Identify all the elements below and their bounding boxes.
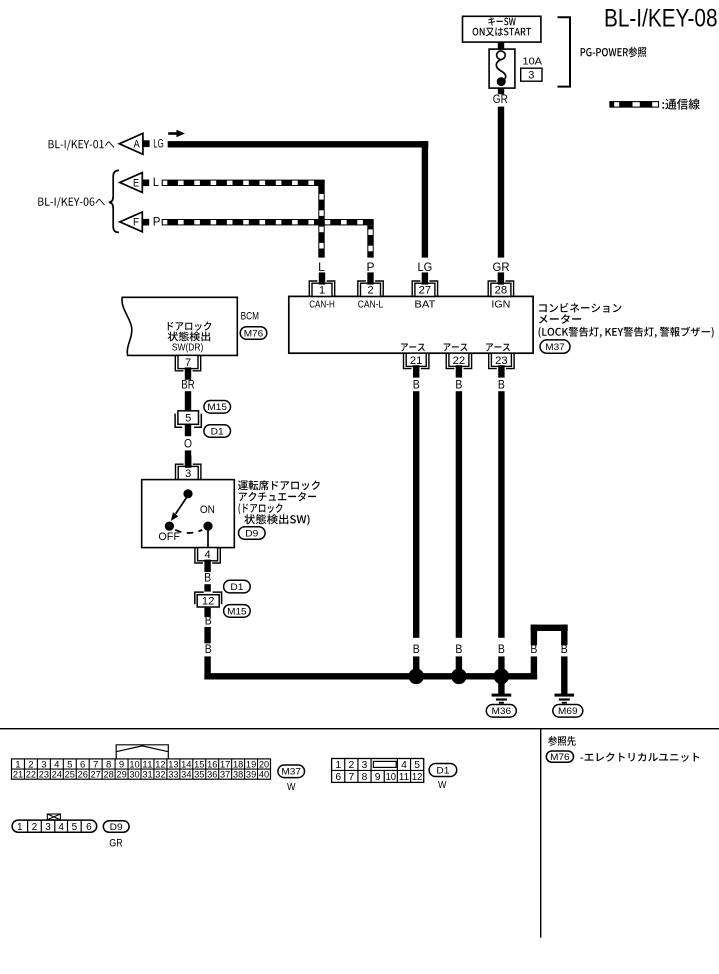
connector oval M69 xyxy=(553,705,583,718)
svg-text:22: 22 xyxy=(26,770,36,781)
BCM box (ドアロック状態検出SW) xyxy=(122,297,237,355)
PG-POWER reference bracket xyxy=(558,17,571,86)
svg-text:W: W xyxy=(287,782,296,793)
switch OFF contact xyxy=(165,522,174,531)
svg-text:L: L xyxy=(153,177,160,189)
svg-text:10A: 10A xyxy=(523,55,543,67)
connector oval M15 (conn 5) xyxy=(204,401,231,414)
svg-text:B: B xyxy=(204,571,211,585)
label (LOCK警告灯, KEY警告灯, 警報ブザー) xyxy=(539,327,714,338)
svg-text:21: 21 xyxy=(13,770,23,781)
svg-text:GR: GR xyxy=(493,260,510,274)
svg-text:25: 25 xyxy=(65,770,75,781)
svg-text:12: 12 xyxy=(202,596,215,608)
legend communication-line sample xyxy=(610,101,659,107)
footer divider vertical xyxy=(540,728,541,938)
svg-text:BR: BR xyxy=(181,378,195,392)
legend label :通信線 xyxy=(662,98,700,109)
ground bus wire xyxy=(204,673,537,679)
wire pin4 to conn12 xyxy=(204,584,210,591)
svg-text:11: 11 xyxy=(399,772,410,783)
svg-text:IGN: IGN xyxy=(491,299,510,310)
wire LG vertical xyxy=(422,141,428,258)
svg-text:1: 1 xyxy=(335,760,341,771)
svg-text:CAN-L: CAN-L xyxy=(358,299,384,310)
wire pin23 to bus xyxy=(498,391,504,638)
svg-text:GR: GR xyxy=(109,838,123,850)
svg-text:GR: GR xyxy=(493,92,508,106)
svg-text:ON: ON xyxy=(200,504,215,516)
svg-text:B: B xyxy=(455,378,462,392)
label 状態検出SW) xyxy=(244,514,309,525)
combination meter box xyxy=(289,296,533,353)
key switch box (キーSW ON又はSTART) xyxy=(463,16,541,42)
svg-text:OFF: OFF xyxy=(158,531,180,543)
svg-text:2: 2 xyxy=(367,285,373,297)
svg-text:B: B xyxy=(530,642,537,656)
svg-text:5: 5 xyxy=(185,413,191,425)
svg-text:3: 3 xyxy=(185,468,191,480)
svg-text:B: B xyxy=(498,378,505,392)
wire B segment xyxy=(204,627,210,644)
svg-text:D1: D1 xyxy=(211,426,224,437)
svg-text:D9: D9 xyxy=(245,528,258,539)
svg-text:40: 40 xyxy=(259,770,269,781)
svg-text:E: E xyxy=(133,177,139,189)
ground symbol M36 xyxy=(492,694,512,697)
node square A xyxy=(143,140,150,147)
connector oval M76 (BCM) xyxy=(240,327,267,340)
svg-text:34: 34 xyxy=(181,770,192,781)
pin 3 xyxy=(176,464,201,479)
pin 4 xyxy=(195,548,220,563)
door lock actuator box xyxy=(142,480,235,548)
wire top link xyxy=(531,625,568,631)
label アクチュエーター xyxy=(239,492,316,502)
svg-text:1: 1 xyxy=(319,285,325,297)
wire pin21 to bus xyxy=(413,391,419,638)
svg-text:LG: LG xyxy=(153,139,164,151)
wire 21 into bus xyxy=(413,656,419,679)
switch common contact xyxy=(183,489,192,498)
label 運転席ドアロック xyxy=(238,480,320,490)
triangle E xyxy=(120,173,143,193)
svg-text:M76: M76 xyxy=(550,752,570,763)
inline connector 12 xyxy=(195,592,222,604)
connector oval D1 (conn 12) xyxy=(224,580,251,593)
svg-text:B: B xyxy=(498,642,505,656)
svg-text:38: 38 xyxy=(233,770,243,781)
connector oval M36 xyxy=(486,705,516,718)
connector oval D1 (conn 5) xyxy=(204,425,231,438)
svg-text:D1: D1 xyxy=(230,582,243,593)
fuse 10A [3] xyxy=(489,49,515,88)
svg-text:21: 21 xyxy=(410,355,423,367)
wire M36 drop xyxy=(498,680,504,695)
inline connector 5 xyxy=(178,411,199,425)
svg-text:27: 27 xyxy=(91,770,101,781)
label BL-I/KEY-06へ xyxy=(38,197,105,208)
footer divider horizontal xyxy=(0,728,719,729)
connector oval M15 (conn 12) xyxy=(224,605,251,618)
junction dot 21 xyxy=(408,669,424,685)
svg-text:22: 22 xyxy=(453,355,466,367)
svg-text:B: B xyxy=(413,642,420,656)
svg-text:6: 6 xyxy=(86,822,92,833)
svg-text:M36: M36 xyxy=(492,706,512,717)
svg-text:M76: M76 xyxy=(244,328,264,339)
svg-text:35: 35 xyxy=(194,770,204,781)
svg-text:2: 2 xyxy=(348,760,354,771)
wire riser lower xyxy=(531,656,537,673)
label 状態検出 (BCM) xyxy=(168,332,211,342)
svg-text:B: B xyxy=(205,642,212,656)
svg-text:M37: M37 xyxy=(545,342,565,353)
label ドアロック (BCM) xyxy=(168,322,212,331)
svg-text:4: 4 xyxy=(58,822,64,833)
svg-text:8: 8 xyxy=(362,772,368,783)
ground symbol M69 xyxy=(555,694,575,697)
wire LG horizontal xyxy=(168,141,429,147)
svg-text:B: B xyxy=(561,642,568,656)
wire key-sw to fuse xyxy=(498,42,504,50)
svg-text:F: F xyxy=(133,217,139,229)
svg-text:M37: M37 xyxy=(281,767,301,778)
svg-text:24: 24 xyxy=(52,770,63,781)
svg-text:P: P xyxy=(153,217,161,229)
svg-text:4: 4 xyxy=(205,549,211,561)
svg-text:36: 36 xyxy=(207,770,217,781)
svg-text:28: 28 xyxy=(495,285,508,297)
svg-text:M15: M15 xyxy=(227,606,247,617)
svg-text:5: 5 xyxy=(414,760,420,771)
wire BR segment xyxy=(185,391,191,410)
svg-text:L: L xyxy=(318,260,325,274)
label PG-POWER参照 xyxy=(581,47,647,57)
label BL-I/KEY-01へ xyxy=(49,140,115,151)
brace BL-I/KEY-06 xyxy=(109,170,119,232)
label メーター xyxy=(539,314,581,324)
connector face M37 (40-pin table) xyxy=(116,745,168,759)
svg-text:23: 23 xyxy=(495,355,508,367)
label アース (pin 22) xyxy=(444,343,468,351)
svg-text:2: 2 xyxy=(32,822,38,833)
svg-text:BL-I/KEY-08: BL-I/KEY-08 xyxy=(604,6,718,33)
label コンビネーション xyxy=(539,303,621,313)
connector oval M76 (reference) xyxy=(546,751,573,762)
wire P dashed horizontal xyxy=(162,219,374,225)
svg-text:4: 4 xyxy=(401,760,407,771)
label -エレクトリカルユニット xyxy=(580,752,699,762)
label アース (pin 21) xyxy=(401,343,425,351)
svg-text:A: A xyxy=(134,139,141,151)
wire M69 drop upper xyxy=(561,625,567,646)
wire L dashed vertical xyxy=(318,186,324,258)
pin 7 xyxy=(175,355,200,370)
pin 27 xyxy=(412,281,437,296)
wire GR vertical to pin 28 xyxy=(498,107,504,258)
svg-text:7: 7 xyxy=(348,772,354,783)
svg-text:D1: D1 xyxy=(436,765,449,776)
svg-text:B: B xyxy=(205,613,212,627)
svg-text:39: 39 xyxy=(246,770,256,781)
wire M69 drop lower xyxy=(561,656,567,694)
svg-text:6: 6 xyxy=(335,772,341,783)
wire below conn 5 xyxy=(185,425,191,437)
node square F xyxy=(143,219,150,226)
svg-text:CAN-H: CAN-H xyxy=(309,299,335,310)
svg-text:10: 10 xyxy=(386,772,397,783)
wire P dashed vertical xyxy=(367,225,373,257)
svg-text:31: 31 xyxy=(142,770,152,781)
wire ON contact to pin 4 xyxy=(207,530,209,547)
svg-text:30: 30 xyxy=(129,770,139,781)
wire O segment xyxy=(185,450,191,466)
svg-text:3: 3 xyxy=(528,69,534,81)
label 参照先 xyxy=(548,736,576,746)
connector oval M37 (meter) xyxy=(540,340,570,353)
junction dot 22 xyxy=(451,669,467,685)
switch ON contact xyxy=(203,522,212,531)
wire bus riser (right) xyxy=(531,625,537,646)
triangle A xyxy=(119,133,143,154)
svg-text:1: 1 xyxy=(17,822,23,833)
svg-text:B: B xyxy=(455,642,462,656)
svg-text:27: 27 xyxy=(419,285,432,297)
pin 21 xyxy=(404,353,429,368)
svg-text:37: 37 xyxy=(220,770,230,781)
svg-text:33: 33 xyxy=(168,770,178,781)
svg-text:3: 3 xyxy=(45,822,51,833)
svg-text:7: 7 xyxy=(185,357,191,369)
connector oval D1 (table) xyxy=(429,764,457,777)
pin 1 xyxy=(309,281,334,296)
pin 2 xyxy=(358,281,383,296)
switch lever arrow xyxy=(176,498,187,514)
arrow (signal direction) xyxy=(168,132,177,135)
connector face D1 (12-pin table) xyxy=(332,759,424,783)
svg-text:9: 9 xyxy=(375,772,381,783)
wire 22 into bus xyxy=(456,656,462,679)
connector oval D9 (actuator) xyxy=(239,527,266,540)
pin 23 xyxy=(489,353,514,368)
wire into bus (left) xyxy=(204,656,210,679)
svg-text:26: 26 xyxy=(78,770,88,781)
svg-text:3: 3 xyxy=(362,760,368,771)
switch travel arc xyxy=(175,530,202,533)
svg-text:12: 12 xyxy=(412,772,423,783)
svg-text:P: P xyxy=(366,260,374,274)
label アース (pin 23) xyxy=(486,343,510,351)
svg-text:29: 29 xyxy=(116,770,126,781)
wire pin22 to bus xyxy=(456,391,462,638)
label (ドアロック xyxy=(239,503,283,514)
svg-text:23: 23 xyxy=(39,770,49,781)
svg-text:5: 5 xyxy=(72,822,78,833)
svg-text:O: O xyxy=(184,437,192,451)
wire L dashed horizontal xyxy=(162,180,325,186)
connector oval D9 (table) xyxy=(103,821,129,833)
connector oval M37 (table) xyxy=(278,765,305,778)
svg-text:BAT: BAT xyxy=(414,299,435,310)
pin 28 xyxy=(488,281,513,296)
svg-text:B: B xyxy=(413,378,420,392)
wire fuse to GR label xyxy=(498,88,504,94)
triangle F xyxy=(120,212,143,232)
svg-text:SW(DR): SW(DR) xyxy=(172,343,203,354)
svg-text:28: 28 xyxy=(103,770,113,781)
svg-text:BCM: BCM xyxy=(241,310,259,322)
svg-text:32: 32 xyxy=(155,770,165,781)
junction dot 23 xyxy=(494,669,510,685)
connector face D9 (6-pin row) xyxy=(47,814,60,820)
svg-text:D9: D9 xyxy=(110,822,123,833)
wire below conn 12 xyxy=(204,607,210,617)
pin 22 xyxy=(446,353,471,368)
node square E xyxy=(143,180,150,187)
svg-text:W: W xyxy=(438,780,447,791)
svg-text:M69: M69 xyxy=(558,706,578,717)
svg-text:LG: LG xyxy=(418,260,433,274)
svg-text:M15: M15 xyxy=(207,402,227,413)
wire 23 into bus xyxy=(498,656,504,679)
